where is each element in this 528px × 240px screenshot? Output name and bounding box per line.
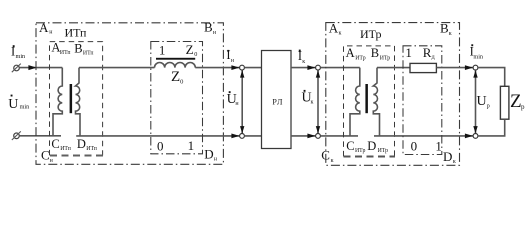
- svg-text:0: 0: [180, 78, 183, 85]
- impedance Z0 winding (series inductor): [155, 62, 196, 67]
- transformer ITp primary winding: [53, 68, 62, 136]
- arrow: bottom rail into node: [307, 134, 315, 139]
- label I_k: [298, 49, 305, 65]
- label U_min (input voltage): [8, 95, 29, 112]
- svg-text:1: 1: [159, 42, 166, 57]
- svg-text:ИТп: ИТп: [86, 146, 97, 152]
- voltage arrow U_n between nodes: [240, 70, 244, 133]
- svg-text:р: р: [487, 104, 490, 110]
- wire: top rail, ITp to Z0: [79, 67, 155, 69]
- label C_ITp: [51, 137, 70, 152]
- wire: РЛ to bottom-right node: [291, 135, 316, 137]
- transformer ITp secondary winding: [76, 68, 81, 136]
- transformer ITr secondary winding: [373, 68, 379, 136]
- svg-text:A: A: [39, 20, 49, 35]
- label pin 1 of Rd box: [405, 45, 412, 60]
- label I_min (output): [470, 44, 483, 60]
- svg-text:R: R: [423, 45, 432, 60]
- svg-text:ИТр: ИТр: [360, 27, 382, 41]
- label D_k: [443, 149, 456, 165]
- voltage arrow U_k between nodes: [316, 70, 320, 133]
- block РЛ (measured line): [262, 51, 292, 149]
- label D_ITp: [77, 137, 97, 152]
- label РЛ: [272, 97, 283, 106]
- svg-text:B: B: [440, 21, 449, 36]
- svg-text:B: B: [371, 46, 379, 60]
- svg-text:ИТр: ИТр: [355, 148, 366, 154]
- impedance Z0 core bar: [156, 58, 195, 60]
- svg-text:C: C: [346, 139, 354, 153]
- wire: load to output node (bottom): [478, 119, 505, 136]
- svg-text:РЛ: РЛ: [272, 97, 283, 106]
- label C_ITr: [346, 139, 365, 154]
- arrow: I_n into top node: [231, 65, 239, 70]
- svg-text:к: к: [331, 158, 334, 164]
- arrow: input current direction: [28, 65, 36, 70]
- label pin 1 (bottom of Rd box): [435, 139, 442, 154]
- svg-text:н: н: [49, 30, 53, 36]
- arrow: bottom rail into bottom node: [231, 134, 239, 139]
- label ИТр: [360, 27, 382, 41]
- label pin 0 (bottom of Rd box): [411, 139, 418, 154]
- wire: top input lead: [19, 67, 62, 69]
- label pin 1 of Z0 box: [159, 42, 166, 57]
- wire: top rail, Z0 to node: [195, 67, 239, 69]
- label pin 1 (bottom of Z0 box): [188, 138, 195, 153]
- svg-text:min: min: [16, 53, 26, 60]
- svg-text:C: C: [51, 137, 59, 151]
- svg-text:C: C: [41, 148, 50, 163]
- wire: top rail ITr to Rd: [377, 67, 410, 69]
- label B_ITr: [371, 46, 391, 61]
- label B_ITp: [74, 41, 93, 56]
- svg-text:B: B: [74, 41, 82, 55]
- label Z0 (top): [186, 42, 198, 58]
- label C_n: [41, 148, 54, 165]
- svg-text:н: н: [231, 58, 235, 64]
- wire: Rd to output node: [436, 67, 473, 69]
- label U_n: [227, 91, 240, 107]
- label A_k: [329, 20, 342, 36]
- svg-text:min: min: [20, 103, 30, 110]
- svg-text:н: н: [235, 101, 239, 107]
- terminal: bottom input: [12, 131, 21, 140]
- svg-text:к: к: [302, 59, 305, 65]
- label D_n: [204, 146, 217, 162]
- label U_k: [302, 90, 314, 106]
- boundary: transformer ITr box bottom (gray dashes): [344, 156, 396, 158]
- svg-text:ИТр: ИТр: [378, 148, 389, 154]
- wire: bottom rail, ITp to node: [76, 135, 239, 137]
- label Z0 (below): [171, 69, 183, 85]
- node: РЛ output top: [316, 65, 321, 70]
- svg-text:1: 1: [435, 139, 442, 154]
- svg-text:д: д: [432, 55, 435, 61]
- svg-text:н: н: [213, 30, 217, 36]
- boundary: Rd two-port dash-dot box: [403, 46, 442, 155]
- transformer ITp core: [70, 84, 73, 113]
- boundary: transformer ITr two-port dashed box: [344, 46, 395, 156]
- svg-text:B: B: [204, 20, 213, 35]
- node: output bottom: [473, 134, 478, 139]
- label B_n: [204, 20, 217, 36]
- label Z_p: [510, 91, 525, 112]
- wire: top node to РЛ: [244, 67, 261, 69]
- svg-text:A: A: [346, 46, 355, 60]
- boundary: voltage channel outer box: [36, 23, 223, 165]
- boundary: transformer ITp two-port dashed box: [50, 42, 103, 156]
- svg-text:н: н: [214, 157, 218, 163]
- resistor Rd (series): [410, 63, 436, 72]
- arrow: I_min output into node: [465, 65, 473, 70]
- arrow: bottom rail into output node: [465, 134, 473, 139]
- svg-text:0: 0: [411, 139, 418, 154]
- boundary: transformer ITp box bottom (gray dashes): [50, 155, 103, 157]
- label pin 0 (bottom of Z0 box): [157, 139, 164, 154]
- svg-text:к: к: [311, 100, 314, 106]
- label Rd: [423, 45, 435, 61]
- wire: bottom input lead: [19, 135, 61, 137]
- svg-text:0: 0: [194, 51, 197, 58]
- svg-text:к: к: [339, 31, 342, 37]
- svg-text:ИТп: ИТп: [60, 50, 71, 56]
- transformer ITr primary winding: [350, 68, 360, 136]
- node: РЛ output bottom: [316, 134, 321, 139]
- label ИТп (transformer name): [65, 26, 88, 40]
- svg-text:к: к: [453, 159, 456, 165]
- svg-text:н: н: [50, 158, 54, 164]
- svg-text:ИТр: ИТр: [355, 55, 366, 61]
- svg-text:ИТп: ИТп: [83, 51, 94, 57]
- node: output top: [473, 65, 478, 70]
- wire: bottom node to ITr: [320, 135, 358, 137]
- svg-text:D: D: [204, 146, 213, 161]
- wire: РЛ to top-right node: [291, 67, 316, 69]
- boundary: Z0 two-port dash-dot box: [151, 42, 203, 154]
- svg-text:C: C: [321, 148, 330, 163]
- node: РЛ input bottom: [240, 134, 245, 139]
- wire: top node to ITr: [320, 67, 359, 69]
- svg-text:ИТп: ИТп: [60, 146, 71, 152]
- voltage arrow U_p between output nodes: [473, 70, 477, 133]
- label I_n: [226, 48, 234, 64]
- node: РЛ input top: [240, 65, 245, 70]
- label U_p: [477, 94, 490, 110]
- svg-text:D: D: [443, 149, 452, 164]
- svg-text:0: 0: [157, 139, 164, 154]
- boundary: current channel outer box: [326, 23, 460, 166]
- svg-text:U: U: [8, 97, 18, 112]
- label C_k: [321, 148, 333, 164]
- label I_min (input current): [11, 44, 25, 60]
- svg-text:ИТп: ИТп: [65, 26, 88, 40]
- label D_ITr: [367, 139, 388, 154]
- transformer ITr core: [365, 84, 368, 113]
- wire: output node to load (top): [478, 68, 505, 87]
- label B_k: [440, 21, 452, 38]
- svg-text:D: D: [367, 139, 376, 153]
- svg-text:1: 1: [405, 45, 412, 60]
- svg-text:Z: Z: [171, 69, 180, 85]
- svg-text:D: D: [77, 137, 86, 151]
- svg-text:ИТр: ИТр: [380, 56, 391, 62]
- svg-text:Z: Z: [186, 42, 194, 57]
- label A_n: [39, 20, 53, 36]
- svg-text:к: к: [449, 31, 452, 37]
- wire: bottom node to РЛ: [244, 135, 261, 137]
- svg-text:U: U: [477, 94, 487, 109]
- svg-text:min: min: [473, 53, 483, 60]
- svg-text:A: A: [329, 20, 339, 35]
- svg-text:1: 1: [188, 138, 195, 153]
- svg-text:Z: Z: [510, 91, 522, 112]
- arrow: I_k into node: [307, 65, 315, 70]
- label A_ITr: [346, 46, 366, 61]
- wire: bottom rail ITr to output node: [374, 135, 473, 137]
- label A_ITp: [51, 41, 70, 56]
- load impedance Z_p: [500, 86, 509, 119]
- terminal: top input: [12, 64, 21, 73]
- svg-text:р: р: [521, 103, 525, 111]
